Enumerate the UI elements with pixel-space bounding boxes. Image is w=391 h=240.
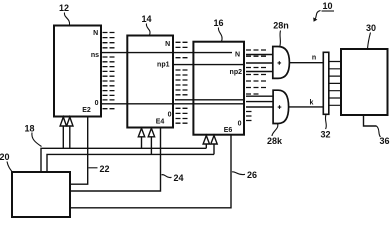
svg-text:0: 0 [238, 120, 242, 127]
svg-text:E4: E4 [156, 119, 165, 126]
leader to block 12 [64, 13, 69, 26]
block 20 [12, 172, 70, 217]
svg-text:16: 16 [213, 18, 223, 28]
wire 0-level from 14 to 16 [175, 99, 244, 101]
arrow head into 16 (a) [203, 136, 209, 145]
wire np1 from 14 into 16 [173, 64, 244, 66]
svg-text:N: N [165, 41, 170, 48]
leader to wire 24 [162, 175, 172, 178]
svg-text:0: 0 [95, 100, 99, 107]
svg-text:E2: E2 [82, 107, 91, 114]
svg-text:0: 0 [168, 112, 172, 119]
leader to 36 [377, 126, 381, 137]
svg-text:26: 26 [247, 170, 257, 180]
svg-text:np2: np2 [230, 69, 243, 76]
svg-text:E6: E6 [224, 127, 233, 134]
register block 12 [54, 26, 101, 117]
clock rail 1 (wire 18) [41, 148, 206, 172]
svg-text:24: 24 [173, 173, 183, 183]
wire ns from 12 to N input of 16 [101, 52, 232, 54]
svg-text:10: 10 [322, 1, 332, 11]
svg-text:30: 30 [366, 23, 376, 33]
svg-text:28n: 28n [273, 21, 289, 31]
rungs bar 32 to block 30 [329, 62, 341, 106]
arrow shaft into 14 (b) [150, 136, 152, 154]
svg-text:ns: ns [91, 52, 99, 59]
wire n from gate 28n to bar 32 [289, 62, 323, 64]
arrow shaft into 14 (a) [141, 136, 143, 148]
leader to gate 28n [279, 31, 282, 47]
OR gate 28n [273, 47, 290, 79]
arrow shaft into 16 (a) [205, 144, 207, 149]
wire 24: E4 of 14 down to block 20 [70, 128, 161, 192]
gate input stubs to 28n [246, 55, 273, 72]
svg-text:18: 18 [24, 124, 34, 134]
leader to block 14 [146, 24, 150, 36]
bus 12 to 14 dashed lines [103, 33, 115, 109]
arrow head into 16 (b) [211, 136, 217, 145]
block 30 [341, 49, 388, 115]
svg-text:32: 32 [320, 130, 330, 140]
bus 16 to gates dashed lines [246, 50, 266, 121]
leader to bar 32 [324, 115, 327, 130]
leader to block 30 [368, 33, 371, 49]
arrow head into 12 (a) [60, 117, 66, 126]
clock rail 2 [47, 154, 214, 172]
leader to gate 28k [272, 124, 278, 137]
arrow head into 14 (b) [148, 128, 154, 137]
svg-text:N: N [235, 51, 240, 58]
wire 26: E6 of 16 down to block 20 [70, 135, 231, 208]
svg-text:14: 14 [141, 14, 151, 24]
register block 14 [127, 36, 173, 128]
register block 16 [193, 42, 244, 135]
gate input stubs to 28k [246, 96, 273, 107]
arrow head into 12 (b) [67, 117, 73, 126]
leader to block 16 [218, 28, 222, 42]
svg-text:k: k [310, 99, 314, 106]
connector bar 32 [323, 52, 329, 114]
svg-text:22: 22 [99, 164, 109, 174]
svg-text:28k: 28k [267, 136, 283, 146]
arrow shaft into 12 (a) [62, 126, 64, 149]
arrow head into 14 (a) [138, 128, 144, 137]
svg-text:N: N [93, 30, 98, 37]
leader to wire 22 [89, 167, 98, 169]
svg-text:n: n [312, 55, 316, 62]
bus 14 to 16 dashed lines [176, 42, 188, 123]
leader to wire 26 [232, 172, 245, 175]
svg-text:12: 12 [59, 3, 69, 13]
leader to rail 1 [32, 133, 42, 147]
wire 0-level from 12 to 16 [101, 103, 244, 105]
leader to block 20 [7, 162, 13, 173]
OR gate 28k [273, 90, 289, 123]
wire k from gate 28k to bar 32 [289, 106, 324, 108]
arrow shaft into 12 (b) [69, 126, 71, 149]
svg-text:np1: np1 [157, 62, 170, 69]
figure number 10 [313, 1, 334, 22]
svg-text:36: 36 [379, 136, 389, 146]
arrow shaft into 16 (b) [213, 144, 215, 155]
output 36 step from block 30 [364, 115, 377, 126]
svg-text:20: 20 [0, 152, 10, 162]
wire 22: E2 of 12 down to block 20 [70, 117, 88, 185]
